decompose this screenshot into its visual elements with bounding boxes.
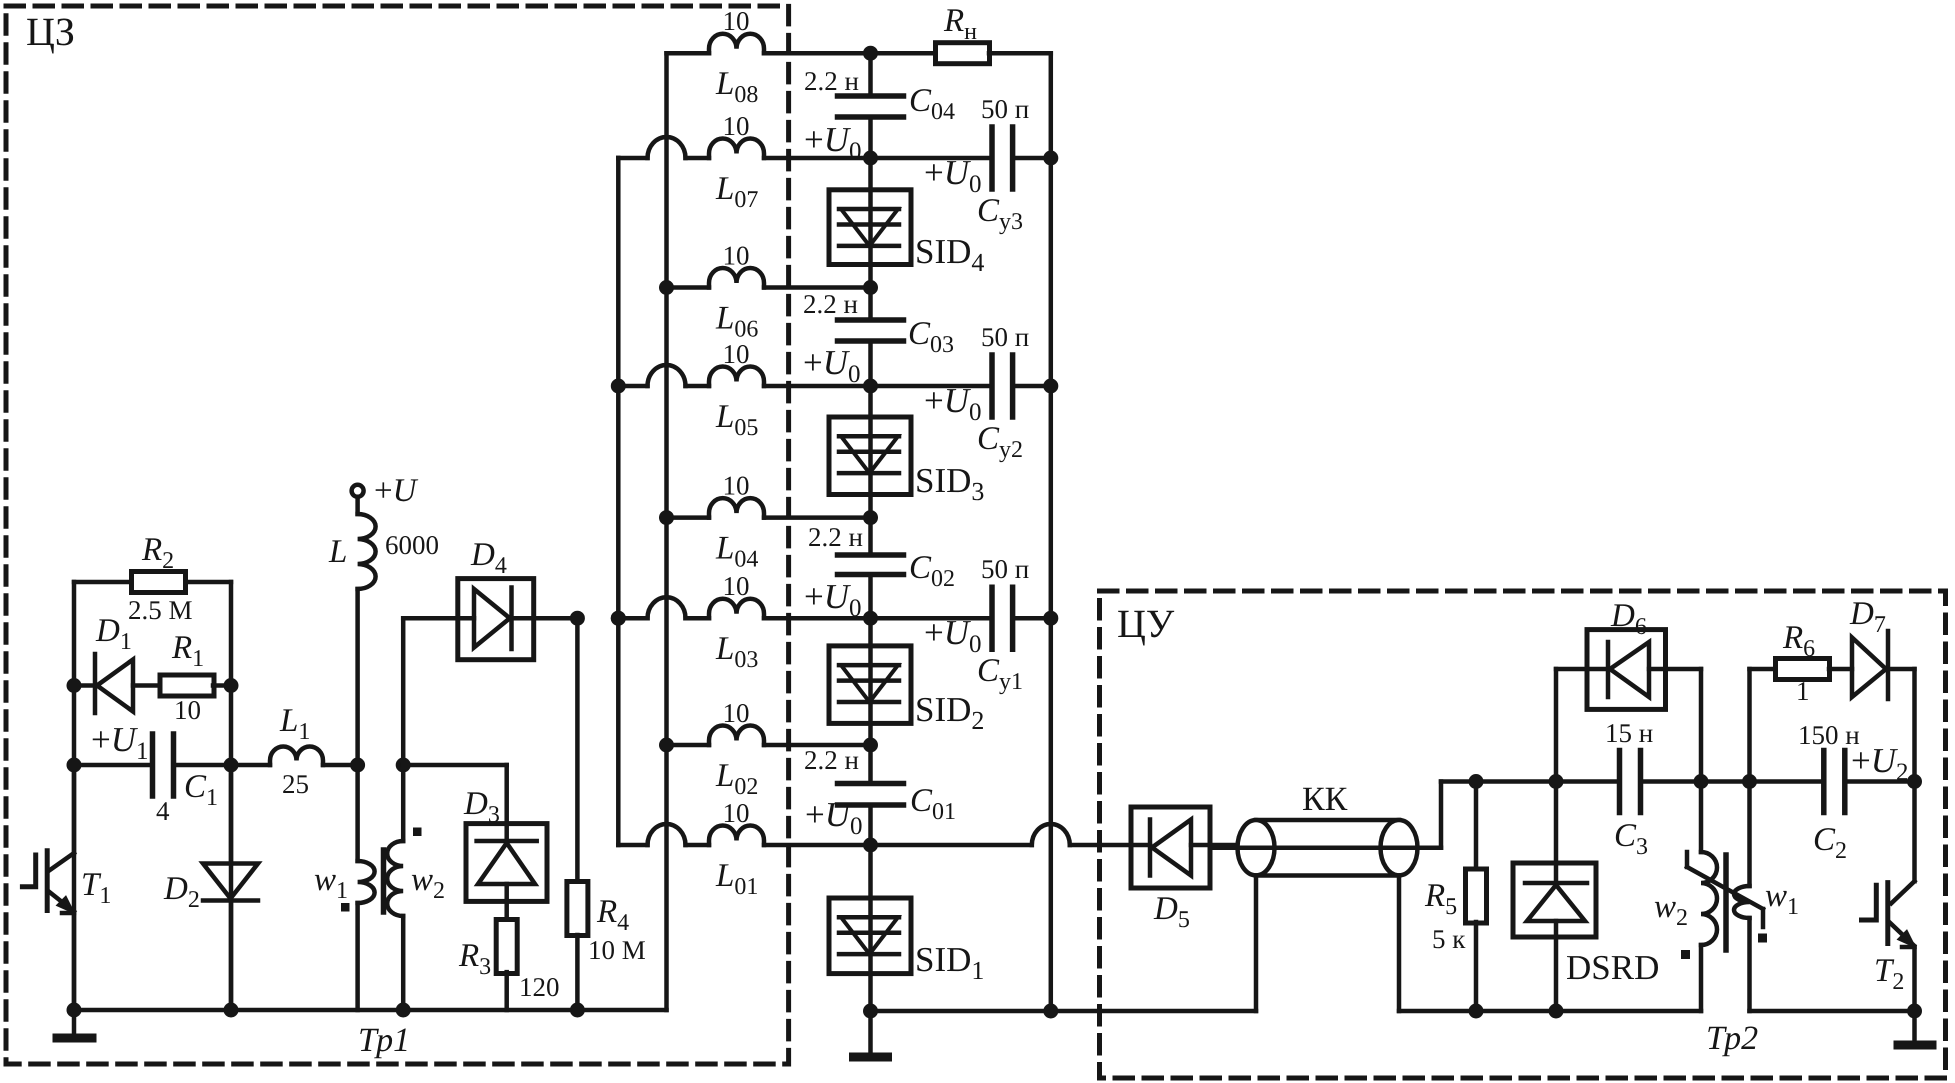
- node w2 top (Tp1): [396, 758, 411, 773]
- svg-text:ЦУ: ЦУ: [1117, 601, 1175, 646]
- wire row to Cу1: [871, 616, 993, 621]
- wire R6 to D7: [1829, 667, 1852, 672]
- wire w2 bottom: [401, 916, 406, 1010]
- wire L07 left: [618, 156, 647, 161]
- wire coax shield left down: [1254, 875, 1259, 1011]
- wire column seg4: [868, 341, 873, 386]
- capacitor C04: [838, 93, 904, 99]
- svg-text:L: L: [328, 534, 347, 570]
- wire L02 right: [764, 743, 871, 748]
- diode D4: [458, 579, 534, 660]
- svg-text:10: 10: [723, 698, 750, 728]
- diode D2: [203, 864, 258, 899]
- node column row L04: [863, 510, 878, 525]
- wire right bus: [1049, 53, 1054, 1011]
- SID3 box: [829, 417, 911, 495]
- diode D1: [93, 654, 98, 713]
- wire D6 right branch: [1666, 667, 1702, 672]
- inductor L04: [709, 498, 764, 518]
- inductor L08: [709, 34, 764, 53]
- wire L01 left: [618, 843, 647, 848]
- wire R2 row right: [186, 580, 231, 585]
- wire L07 right: [764, 156, 871, 161]
- capacitor Cу3: [989, 127, 995, 189]
- capacitor C01: [838, 781, 904, 787]
- node D2 bottom: [224, 1003, 239, 1018]
- capacitor Cу2: [989, 355, 995, 417]
- node R4 top: [570, 611, 585, 626]
- wire column seg1: [868, 53, 873, 96]
- node DSRD bottom: [1549, 1004, 1564, 1019]
- diode DSRD: [1513, 863, 1596, 937]
- wire L01 right: [764, 843, 871, 848]
- ground (T1): [72, 1010, 77, 1034]
- diode D5: [1131, 807, 1210, 888]
- saturable link (Tp2): [1685, 852, 1690, 867]
- node bus A row L05: [611, 379, 626, 394]
- inductor L01: [709, 826, 764, 845]
- winding w1 (Tp2): [1747, 782, 1752, 887]
- wire L04 left: [667, 515, 710, 520]
- svg-text:2.2 н: 2.2 н: [808, 522, 863, 552]
- wire L to L1 node: [355, 589, 360, 765]
- inductor L02: [709, 726, 764, 746]
- svg-text:120: 120: [519, 972, 560, 1002]
- capacitor C2: [1821, 751, 1827, 813]
- wire L06 right: [764, 285, 871, 290]
- wire R5 top: [1474, 782, 1479, 871]
- svg-text:10: 10: [723, 241, 750, 271]
- wire D1 row a: [74, 683, 95, 688]
- node C3 right / w2 top: [1694, 774, 1709, 789]
- dashed box ЦУ (control circuit): [1100, 591, 1946, 1078]
- wire column seg5: [868, 518, 873, 555]
- node D1 row left: [67, 678, 82, 693]
- capacitor C02: [838, 552, 904, 558]
- wire L08 to Rн: [871, 51, 937, 56]
- inductor L 6000: [358, 514, 376, 589]
- wire D7 down: [1912, 669, 1917, 782]
- node bus A row L03: [611, 611, 626, 626]
- wire column seg3: [868, 288, 873, 321]
- node column row L08: [863, 46, 878, 61]
- svg-text:10: 10: [723, 471, 750, 501]
- node DSRD top: [1549, 774, 1564, 789]
- svg-text:2.2 н: 2.2 н: [804, 745, 859, 775]
- node ground row column: [863, 1004, 878, 1019]
- wire column seg8: [868, 805, 873, 845]
- svg-text:2.2 н: 2.2 н: [803, 289, 858, 319]
- svg-text:2.5 М: 2.5 М: [128, 595, 193, 625]
- capacitor C03: [838, 317, 904, 323]
- svg-text:50 п: 50 п: [981, 94, 1029, 124]
- winding w2 (Tp2): [1699, 782, 1704, 853]
- inductor L03: [709, 599, 764, 618]
- wire column seg2: [868, 117, 873, 158]
- svg-text:DSRD: DSRD: [1566, 948, 1659, 987]
- node right bus row 2: [1043, 379, 1058, 394]
- svg-text:10: 10: [723, 798, 750, 828]
- node column row L05: [863, 379, 878, 394]
- wire bus B: [664, 53, 669, 1010]
- wire column seg6: [868, 575, 873, 619]
- node bus B row L06: [659, 280, 674, 295]
- SID2 box: [829, 646, 911, 724]
- svg-text:Тр2: Тр2: [1706, 1020, 1758, 1057]
- node C1 row right: [224, 758, 239, 773]
- wire R2 row left: [74, 580, 131, 585]
- resistor R5: [1466, 869, 1487, 923]
- SID1 box: [829, 898, 911, 974]
- svg-text:ЦЗ: ЦЗ: [26, 9, 75, 54]
- wire D6 left branch: [1554, 669, 1559, 782]
- transistor T2 body: [1885, 883, 1890, 944]
- wire DSRD bottom: [1554, 937, 1559, 1011]
- node ground row right bus: [1043, 1004, 1058, 1019]
- transistor T1 collector: [72, 765, 77, 853]
- node bus B row L04: [659, 510, 674, 525]
- wire L05 left: [618, 384, 647, 389]
- wire R3 bottom: [504, 972, 509, 1010]
- dashed box ЦЗ (driver circuit): [6, 6, 789, 1064]
- wire bridge L05 over bus B: [648, 365, 686, 386]
- polarity dot w2 (Tp1): [413, 828, 422, 837]
- node R4 bottom: [570, 1003, 585, 1018]
- diode D6: [1587, 630, 1666, 710]
- node column row L06: [863, 280, 878, 295]
- diode SID4: [868, 158, 873, 246]
- diode SID3: [868, 386, 873, 473]
- wire L05 right: [764, 384, 871, 389]
- terminal +U: [352, 485, 364, 497]
- svg-text:25: 25: [282, 769, 309, 799]
- wire L06 left: [667, 285, 710, 290]
- wire C1 left: [74, 763, 153, 768]
- wire Cу1 right: [1013, 616, 1051, 621]
- node right bus row 3: [1043, 151, 1058, 166]
- wire R1 right: [213, 683, 231, 688]
- wire bridge L01 over bus B: [648, 824, 686, 845]
- ground (T2): [1912, 1011, 1917, 1041]
- wire L08 left: [667, 51, 710, 56]
- wire L03 right: [764, 616, 871, 621]
- polarity dot w2 (Tp2): [1681, 950, 1690, 959]
- transistor T1 body: [45, 851, 50, 911]
- node R5 bottom: [1469, 1004, 1484, 1019]
- wire C1 right: [174, 763, 232, 768]
- svg-text:50 п: 50 п: [981, 554, 1029, 584]
- capacitor C1: [150, 734, 156, 796]
- capacitor C3: [1617, 751, 1623, 813]
- wire DSRD top: [1554, 782, 1559, 864]
- resistor R2: [132, 572, 186, 593]
- transistor T1 emitter: [49, 892, 74, 912]
- wire ЦУ bottom bus: [1399, 1009, 1701, 1014]
- SID4 box: [829, 190, 911, 265]
- node w2 bottom: [396, 1003, 411, 1018]
- transistor T2 collector: [1912, 782, 1917, 882]
- svg-text:КК: КК: [1302, 781, 1348, 818]
- wire D4 to R4: [534, 616, 578, 621]
- node R5 top: [1469, 774, 1484, 789]
- ground (ladder): [868, 1011, 873, 1053]
- wire L08 right: [764, 51, 871, 56]
- wire coax shield right down: [1397, 875, 1402, 1011]
- node w1 top (Tp2): [1742, 774, 1757, 789]
- resistor R4: [567, 882, 588, 936]
- resistor R3: [496, 920, 517, 974]
- wire w2 bottom (Tp2): [1699, 945, 1704, 1011]
- wire L02 left: [667, 743, 710, 748]
- wire ground row: [871, 1009, 1257, 1014]
- node right bus row 1: [1043, 611, 1058, 626]
- svg-text:10: 10: [174, 695, 201, 725]
- winding w1 (Tp1): [355, 765, 360, 861]
- wire left rail: [72, 582, 77, 1010]
- wire column seg7: [868, 745, 873, 784]
- wire L01 mid: [686, 843, 710, 848]
- svg-text:+U: +U: [374, 473, 419, 509]
- wire D5 to KK: [1210, 843, 1238, 848]
- node C1 row left: [67, 758, 82, 773]
- wire D1-R1: [133, 683, 161, 688]
- wire D4 branch up: [401, 618, 406, 765]
- svg-text:6000: 6000: [385, 530, 439, 560]
- node L/L1: [350, 758, 365, 773]
- wire ЦУ bottom bus right: [1750, 1009, 1916, 1014]
- capacitor Cу1: [989, 587, 995, 649]
- inductor L07: [709, 139, 764, 159]
- node T2 emitter bottom: [1907, 1004, 1922, 1019]
- polarity dot w1 (Tp1): [341, 903, 350, 912]
- resistor R6: [1776, 659, 1830, 680]
- coax cable KK: [1256, 818, 1399, 823]
- wire bridge L01 over right bus: [1032, 824, 1070, 845]
- wire Rн right: [989, 51, 1051, 56]
- node column row L01: [863, 838, 878, 853]
- wire R5 bottom: [1474, 922, 1479, 1011]
- wire KK out up: [1439, 782, 1444, 848]
- diode SID1: [868, 845, 873, 954]
- node bus A row L03: [611, 611, 626, 626]
- wire R4 bottom: [575, 935, 580, 1010]
- svg-text:50 п: 50 п: [981, 322, 1029, 352]
- svg-text:1: 1: [1796, 676, 1810, 706]
- wire L1 right: [323, 763, 358, 768]
- polarity dot w1 (Tp2): [1758, 934, 1767, 943]
- inductor L05: [709, 367, 764, 387]
- node bus B row L02: [659, 738, 674, 753]
- winding w2 (Tp1): [401, 765, 406, 841]
- wire ЦУ top rail a: [1476, 779, 1620, 784]
- resistor Rн: [936, 43, 990, 64]
- wire w1 bottom: [355, 903, 360, 1010]
- node C2 right / T2 collector: [1907, 774, 1922, 789]
- wire C2 right to T2 node: [1845, 779, 1915, 784]
- wire L05 mid: [686, 384, 710, 389]
- wire row to Cу3: [871, 156, 993, 161]
- wire R6 branch up: [1747, 669, 1752, 782]
- wire w1 bottom (Tp2): [1747, 918, 1752, 1011]
- diode D7: [1852, 638, 1886, 698]
- svg-text:10: 10: [723, 339, 750, 369]
- node column row L07: [863, 151, 878, 166]
- svg-text:Тр1: Тр1: [358, 1022, 410, 1059]
- resistor R1: [160, 675, 214, 696]
- svg-text:2.2 н: 2.2 н: [804, 66, 859, 96]
- inductor L1: [270, 747, 323, 766]
- svg-text:10: 10: [723, 6, 750, 36]
- wire corner L07: [616, 156, 621, 161]
- node D1 row right: [224, 678, 239, 693]
- wire right rail: [229, 582, 234, 1010]
- core Tp1: [381, 850, 387, 912]
- wire L04 right: [764, 515, 871, 520]
- wire C1row to L1: [231, 763, 270, 768]
- wire D3 to R3: [504, 901, 509, 920]
- node column row L02: [863, 738, 878, 753]
- node column row L03: [863, 611, 878, 626]
- wire +U to L: [355, 497, 360, 514]
- wire bottom bus left: [74, 1008, 667, 1013]
- svg-text:15 н: 15 н: [1605, 718, 1653, 748]
- wire Cу2 right: [1013, 384, 1051, 389]
- wire to D5: [1070, 843, 1131, 848]
- wire bus A: [616, 158, 621, 845]
- svg-text:10: 10: [723, 111, 750, 141]
- wire D3 top: [403, 763, 507, 768]
- wire ЦУ top rail b: [1641, 779, 1824, 784]
- wire L03 mid: [686, 616, 710, 621]
- node T1 emitter bottom: [67, 1003, 82, 1018]
- wire L03 to bus A: [618, 616, 647, 621]
- wire bridge L03 over bus B: [648, 597, 686, 618]
- inductor L06: [709, 268, 764, 288]
- core Tp2: [1723, 855, 1729, 950]
- wire bridge L07 over bus B: [648, 137, 686, 158]
- svg-text:10 М: 10 М: [588, 935, 646, 965]
- svg-text:4: 4: [156, 796, 170, 826]
- diode D3 (SOS): [466, 824, 547, 902]
- svg-text:10: 10: [723, 571, 750, 601]
- wire L01 out: [871, 843, 1032, 848]
- wire L07 mid: [686, 156, 710, 161]
- wire R4 top: [575, 618, 580, 882]
- svg-text:5 к: 5 к: [1432, 924, 1466, 954]
- wire row to Cу2: [871, 384, 993, 389]
- wire Cу3 right: [1013, 156, 1051, 161]
- transistor T2 emitter: [1889, 922, 1914, 946]
- diode SID2: [868, 618, 873, 702]
